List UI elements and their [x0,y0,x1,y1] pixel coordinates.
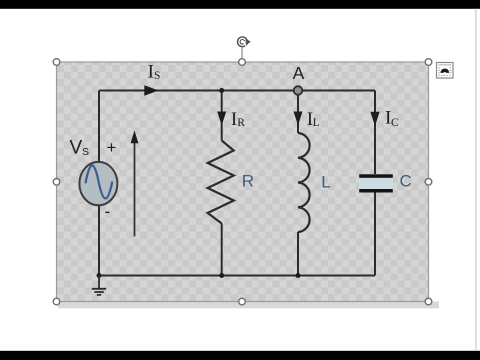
ac source VS [79,162,117,205]
svg-text:L: L [321,173,330,192]
junction dot resistor top [219,88,224,93]
svg-text:C: C [391,117,399,129]
current arrow IC [370,112,379,126]
selection border [57,62,429,302]
svg-text:+: + [107,138,117,157]
svg-text:V: V [70,138,83,159]
selection handle bottom-left [53,298,60,305]
rotation handle stem [241,48,243,59]
inductor L [298,133,310,232]
wire: bottom bus [99,275,375,277]
selection handle bottom-mid [239,298,246,305]
resistor R [208,141,234,224]
node A dot [294,86,303,95]
layout options button [437,63,454,79]
label IC [385,108,399,129]
selection handle mid-left [53,179,60,186]
right pane divider line [475,9,477,351]
svg-text:C: C [400,172,412,191]
selection handle top-mid [239,59,246,66]
wire: inductor branch upper [297,95,299,134]
selection handle top-left [53,59,60,66]
svg-text:A: A [293,63,305,83]
rotation handle icon [238,37,251,49]
label IR [231,109,245,130]
letterbox bar top [0,0,480,9]
image drop shadow strip [58,302,439,309]
reference arrow for source voltage (upward) [131,131,139,237]
selection handle mid-right [425,179,432,186]
letterbox bar bottom [0,351,480,360]
checkerboard transparent image area [57,62,429,302]
wire: top bus from source to capacitor branch [99,90,375,92]
svg-text:S: S [82,146,89,158]
wire: left branch upper segment [98,91,100,164]
wire: capacitor branch upper [374,91,376,175]
svg-text:L: L [313,117,320,129]
wire: resistor branch lower [221,224,223,276]
svg-text:I: I [148,62,154,83]
current arrow IR [217,112,226,126]
wire: left branch lower segment [98,205,100,276]
wire: resistor branch upper [221,91,223,141]
junction dot resistor bottom [219,273,224,278]
wire: inductor branch lower [297,232,299,276]
label IS [148,62,161,83]
current arrow IS [144,85,158,95]
svg-text:R: R [237,117,245,129]
junction dot ground [97,273,102,278]
selection handle top-right [425,59,432,66]
svg-text:R: R [242,172,254,191]
wire: capacitor branch lower [374,193,376,276]
capacitor C [359,174,393,192]
current arrow IL [294,112,303,126]
label VS [70,138,90,159]
ground [92,276,106,295]
junction dot inductor bottom [296,273,301,278]
label IL [307,109,320,130]
svg-text:-: - [105,202,111,221]
selection handle bottom-right [425,298,432,305]
svg-text:S: S [154,70,160,82]
